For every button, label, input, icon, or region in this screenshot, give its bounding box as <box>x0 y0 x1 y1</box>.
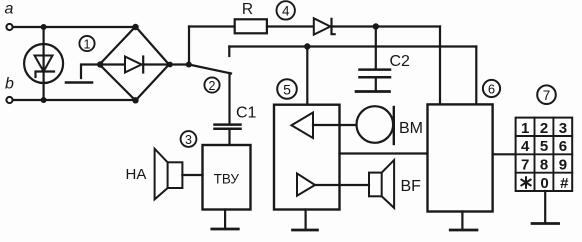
svg-text:0: 0 <box>540 175 548 192</box>
wire riser to R rail <box>188 27 190 65</box>
ground bar under C2 <box>356 90 390 93</box>
junction dot bridge out <box>186 62 192 68</box>
wire a rail <box>13 26 136 28</box>
ground stub at bridge left <box>81 65 100 79</box>
amp triangle left <box>292 113 314 139</box>
diode VD3 bar <box>332 19 335 34</box>
label 5 <box>277 79 297 99</box>
top rail diode to corner <box>331 25 440 27</box>
block TVU <box>203 145 251 210</box>
switch SA1 blade <box>189 65 231 74</box>
block U6 <box>428 104 493 211</box>
label 7 <box>537 85 556 104</box>
svg-text:1: 1 <box>84 38 91 52</box>
varistor VD1 circle <box>24 44 63 83</box>
label 6 <box>483 80 500 97</box>
wire block5 to block6 <box>340 152 428 154</box>
label 1 <box>79 36 94 51</box>
svg-text:a: a <box>5 1 14 18</box>
speaker HA rect <box>168 162 183 188</box>
svg-text:#: # <box>560 175 569 192</box>
top rail R to diode <box>267 25 315 27</box>
top rail left of R <box>189 25 235 27</box>
svg-text:8: 8 <box>540 156 548 173</box>
svg-text:b: b <box>5 76 14 93</box>
svg-text:C1: C1 <box>236 105 257 122</box>
bridge diode bar <box>142 57 144 73</box>
junction dot mid rail <box>304 43 310 49</box>
ground block 6 <box>461 212 463 230</box>
svg-text:9: 9 <box>559 156 567 173</box>
junction dot C2 tap <box>373 23 379 29</box>
resistor R <box>235 19 267 33</box>
diode VD3 triangle <box>314 18 331 34</box>
svg-text:4: 4 <box>521 138 530 155</box>
capacitor C2 wire <box>375 27 377 70</box>
bridge interior wire <box>100 63 170 65</box>
ground TVU <box>224 210 226 229</box>
label 2 <box>204 77 219 92</box>
svg-text:BF: BF <box>401 178 422 195</box>
amp triangle right <box>297 173 315 195</box>
microphone BM circle <box>357 106 394 143</box>
svg-text:ТВУ: ТВУ <box>214 172 240 187</box>
wire corner down into block 6 <box>439 27 441 105</box>
junction dot b/VD1 <box>41 97 47 103</box>
svg-text:НА: НА <box>126 166 147 183</box>
wire b rail <box>13 99 136 101</box>
label 3 <box>181 131 197 147</box>
wire switch to C1 <box>228 73 230 124</box>
svg-text:4: 4 <box>282 4 290 19</box>
block U5 <box>274 105 340 210</box>
bridge diode triangle <box>125 57 142 73</box>
wire mid rail corner into block 6 <box>475 47 477 105</box>
wire C1 to TVU <box>228 129 230 145</box>
svg-text:2: 2 <box>540 120 548 137</box>
wire block6 to keypad <box>493 153 516 155</box>
svg-text:7: 7 <box>521 156 529 173</box>
wire drop to block 5 <box>306 47 308 105</box>
svg-text:2: 2 <box>209 79 216 93</box>
microphone BM bar <box>393 107 395 144</box>
wire HA to TVU <box>182 174 202 176</box>
svg-text:6: 6 <box>488 82 495 97</box>
svg-text:3: 3 <box>559 120 567 137</box>
svg-text:5: 5 <box>540 138 548 155</box>
keypad digits row 1 <box>521 120 569 192</box>
wire C2 to ground <box>375 77 377 90</box>
capacitor C2 <box>360 68 391 71</box>
keypad grid lines <box>516 118 573 191</box>
svg-text:5: 5 <box>283 82 291 98</box>
wire amp to BF <box>315 184 369 186</box>
svg-text:3: 3 <box>185 133 192 147</box>
svg-text:C2: C2 <box>390 53 411 70</box>
wire through varistor <box>42 27 44 100</box>
wire amp to BM <box>313 124 357 126</box>
switch SA1 fixed contact <box>228 47 230 57</box>
svg-text:R: R <box>242 1 253 18</box>
terminal b <box>6 97 12 103</box>
keypad frame <box>516 118 573 191</box>
svg-text:6: 6 <box>559 138 567 155</box>
ground keypad <box>544 191 546 222</box>
svg-text:7: 7 <box>543 88 551 103</box>
label 4 <box>277 1 295 19</box>
capacitor C1 <box>215 123 241 126</box>
speaker BF horn <box>382 160 394 208</box>
varistor VD1 triangle <box>35 56 53 72</box>
mid rail <box>229 45 476 47</box>
bridge VD2 diamond <box>100 27 170 101</box>
speaker HA horn <box>155 149 168 200</box>
ground block 5 <box>305 210 307 230</box>
wire bridge out <box>169 63 189 65</box>
bridge vertex dots <box>132 24 138 30</box>
speaker BF rect <box>369 173 382 197</box>
keypad star <box>521 177 530 188</box>
terminal a <box>6 24 12 30</box>
junction dot a/VD1 <box>41 24 47 30</box>
svg-text:1: 1 <box>521 120 529 137</box>
varistor VD1 cathode bar <box>36 72 55 78</box>
svg-text:BM: BM <box>399 120 423 137</box>
